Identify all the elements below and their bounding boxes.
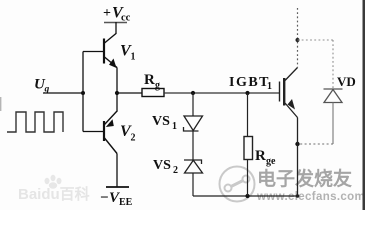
svg-text:VS: VS [153, 158, 171, 173]
wire V2 emitter to node [116, 93, 118, 111]
label VS2 [153, 158, 178, 176]
svg-text:ge: ge [266, 156, 276, 167]
svg-text:Baidu百科: Baidu百科 [18, 185, 90, 203]
wire IGBT collector dashed [297, 8, 299, 68]
label VS1 [152, 114, 177, 132]
svg-text:1: 1 [267, 81, 272, 92]
node Rge branch junction [245, 91, 249, 95]
wire VD bottom [332, 103, 334, 145]
node collector VD junction [296, 38, 300, 42]
node emitter VD junction [295, 142, 299, 146]
wire collector to VD dashed [298, 39, 334, 41]
svg-text:IGBT: IGBT [229, 75, 270, 90]
wire node to VS1 [192, 93, 194, 116]
artifact left edge mark [0, 97, 2, 111]
wire Vcc to V1 collector [115, 22, 117, 34]
svg-text:VS: VS [152, 114, 170, 129]
label V2 [120, 123, 136, 144]
wire V2 base [83, 131, 104, 133]
watermark Baidu logo paw [45, 175, 62, 189]
resistor Rge [244, 137, 253, 160]
wire input Ug [43, 92, 83, 94]
wire VS1 to VS2 [192, 131, 194, 160]
node emitter rail junction [296, 194, 300, 198]
transistor V2 [104, 111, 118, 154]
wire gate node to Rge [247, 93, 249, 137]
label Rge [255, 148, 276, 167]
svg-text:g: g [155, 80, 160, 91]
transistor V1 [104, 34, 117, 69]
svg-text:1: 1 [131, 52, 136, 63]
label V1 [120, 43, 136, 63]
svg-text:2: 2 [131, 133, 136, 144]
svg-text:−: − [100, 190, 109, 206]
node input junction [81, 91, 85, 95]
wire bottom rail [193, 195, 298, 197]
border right edge [363, 0, 365, 210]
wire V2 collector down [116, 154, 118, 188]
svg-text:2: 2 [173, 165, 178, 176]
wire VS2 to bottom rail [192, 173, 194, 196]
square wave input signal [7, 112, 63, 132]
node VS branch junction [191, 91, 195, 95]
diode VD [324, 89, 343, 103]
svg-text:1: 1 [172, 121, 177, 132]
wire IGBT emitter down [297, 118, 299, 197]
transistor IGBT1 [280, 68, 298, 118]
zener diode VS2 [184, 160, 203, 173]
node output junction [115, 91, 119, 95]
watermark elecfans logo circle [220, 167, 255, 202]
power -VEE [100, 190, 133, 208]
power +Vcc terminal bar [104, 22, 127, 24]
wire VD to emitter dashed [298, 143, 333, 145]
wire V1 emitter to node [116, 68, 118, 94]
svg-text:+: + [103, 6, 111, 21]
svg-text:R: R [255, 148, 266, 164]
power -VEE terminal bar [106, 186, 129, 188]
svg-text:www.elecfans.com: www.elecfans.com [256, 191, 365, 203]
label Ug [34, 77, 50, 95]
wire Rge to rail [247, 160, 249, 197]
svg-text:EE: EE [119, 197, 133, 208]
wire base bus vertical [82, 52, 84, 132]
wire VD top dashed [332, 40, 334, 89]
svg-text:R: R [144, 72, 155, 88]
wire Rg to IGBT gate [164, 92, 279, 94]
node Rge rail junction [245, 194, 249, 198]
resistor Rg [142, 89, 164, 97]
wire node to Rg [117, 92, 142, 94]
power +Vcc [103, 5, 131, 24]
zener diode VS1 [184, 116, 203, 131]
svg-text:VD: VD [337, 74, 356, 89]
wire V1 base [83, 51, 104, 53]
label IGBT1 [229, 75, 272, 92]
svg-text:电子发烧友: 电子发烧友 [257, 167, 352, 190]
label Rg [144, 72, 160, 91]
